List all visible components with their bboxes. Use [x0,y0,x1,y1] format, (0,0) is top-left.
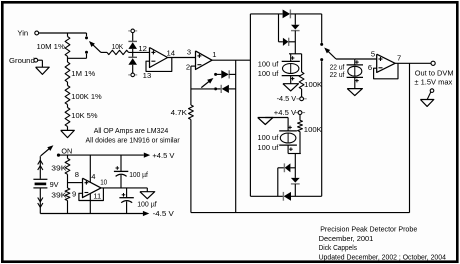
svg-text:100K: 100K [304,80,322,89]
svg-text:10K: 10K [112,42,124,51]
svg-text:100 uf: 100 uf [258,143,280,152]
svg-text:1M 1%: 1M 1% [71,69,95,78]
svg-text:39K: 39K [51,164,66,173]
svg-text:ON: ON [61,146,72,155]
svg-text:December, 2001: December, 2001 [319,234,374,243]
svg-text:All OP Amps are LM324: All OP Amps are LM324 [94,126,169,135]
svg-text:-4.5 V: -4.5 V [153,209,175,218]
svg-text:39K: 39K [51,191,66,200]
svg-text:+4.5 V: +4.5 V [274,108,297,117]
svg-text:10M 1%: 10M 1% [37,42,66,51]
svg-text:11: 11 [93,191,101,200]
svg-text:100 µf: 100 µf [137,199,157,208]
svg-text:13: 13 [143,71,152,80]
svg-text:12: 12 [138,44,147,53]
svg-text:3: 3 [187,48,191,57]
svg-text:Updated December, 2002 ; Octob: Updated December, 2002 ; October, 2004 [319,252,446,261]
svg-text:4.7K: 4.7K [171,108,187,117]
svg-text:100K 1%: 100K 1% [71,92,102,101]
svg-text:Precision Peak Detector Probe: Precision Peak Detector Probe [320,224,417,233]
svg-text:100 uf: 100 uf [258,69,279,78]
svg-text:All doides are 1N916 or simila: All doides are 1N916 or similar [86,136,181,145]
svg-text:2: 2 [186,62,190,71]
svg-text:9: 9 [72,189,76,198]
svg-text:10K 5%: 10K 5% [71,111,97,120]
svg-text:100 uf: 100 uf [258,133,280,142]
svg-text:8: 8 [75,170,79,179]
svg-text:7: 7 [397,54,401,63]
svg-text:10: 10 [100,177,107,186]
svg-text:Yin: Yin [17,28,28,37]
svg-text:-4.5 V: -4.5 V [277,94,297,103]
svg-text:± 1.5V max: ± 1.5V max [414,77,452,86]
svg-text:100K: 100K [304,125,322,134]
svg-text:14: 14 [167,48,176,57]
svg-text:5: 5 [371,50,375,59]
svg-text:6: 6 [368,63,372,72]
svg-text:1: 1 [212,50,216,59]
svg-text:Ground: Ground [9,56,35,65]
svg-text:100 µf: 100 µf [129,170,148,179]
svg-text:Out to DVM: Out to DVM [415,68,454,77]
svg-text:100 uf: 100 uf [258,60,279,69]
svg-text:9V: 9V [50,180,60,189]
svg-text:22 uf: 22 uf [330,70,346,79]
svg-text:4: 4 [91,172,95,181]
svg-text:Dick Cappels: Dick Cappels [319,243,358,252]
svg-text:+4.5 V: +4.5 V [152,151,175,160]
